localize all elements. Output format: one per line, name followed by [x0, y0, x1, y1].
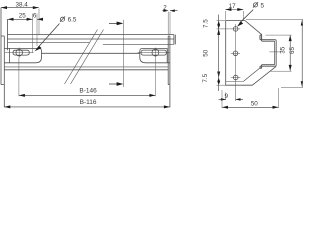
rail top flange [260, 40, 276, 42]
dimension 7.5 top left [203, 15, 231, 35]
rail second line [8, 38, 174, 40]
plate bottom fold line [226, 81, 244, 83]
section view arrow upper [109, 22, 123, 26]
svg-text:6: 6 [33, 12, 37, 19]
label leader Ø6.5 [35, 16, 77, 51]
svg-text:65: 65 [289, 47, 296, 55]
rail web [275, 41, 277, 65]
rail mid mark [270, 51, 282, 53]
dimension 65 [246, 20, 303, 88]
dimension 9 [219, 93, 244, 101]
svg-text:50: 50 [202, 49, 209, 57]
left end plate [1, 8, 4, 108]
svg-text:35: 35 [280, 46, 287, 54]
dimension 6 [33, 12, 43, 46]
plate outline [226, 21, 276, 86]
RIGHT VIEW [226, 21, 281, 101]
hole middle [233, 51, 238, 56]
svg-text:7.5: 7.5 [203, 19, 210, 28]
svg-text:7.5: 7.5 [202, 73, 209, 82]
right slot centerlines [138, 48, 170, 58]
rail third line right segment [103, 43, 174, 45]
dimension 17 [225, 3, 243, 20]
bar bottom line [4, 69, 168, 71]
left slot circle [16, 49, 23, 56]
break line B [71, 30, 104, 85]
section view arrow lower [109, 82, 123, 86]
dimension 2 [162, 4, 177, 35]
svg-text:B-116: B-116 [80, 99, 97, 106]
section cut line [123, 20, 125, 87]
left slot centerlines [5, 48, 34, 58]
right slot circle [152, 49, 159, 56]
dimension 25 [8, 12, 33, 53]
dimension 7.5 bottom left [202, 72, 226, 92]
right end plate [168, 36, 170, 107]
rail top lip [260, 35, 262, 41]
hole bottom [233, 75, 238, 80]
plate corner fold line [243, 68, 260, 81]
bar top line [42, 52, 140, 54]
svg-text:25: 25 [19, 12, 27, 19]
dimension B-116 [4, 99, 170, 109]
dimension B-146 [19, 58, 156, 97]
rail top line [8, 34, 174, 36]
svg-text:6.5: 6.5 [68, 17, 77, 24]
svg-text:50: 50 [251, 101, 259, 108]
rail bottom flange [260, 64, 276, 66]
right bracket [140, 48, 170, 62]
break line A [65, 30, 98, 85]
rail third line left segment [8, 42, 90, 44]
dimension 50 bottom [222, 88, 279, 109]
label leader Ø5 [237, 2, 264, 27]
dimension 50 left [202, 29, 220, 78]
rail bottom lip [260, 65, 262, 69]
bar inner bottom line [4, 66, 168, 68]
svg-text:9: 9 [224, 93, 228, 100]
svg-text:5: 5 [261, 2, 265, 9]
rail left end vertical [7, 19, 9, 50]
dimension 35 [266, 35, 292, 71]
right slot [141, 50, 166, 55]
left slot [13, 50, 29, 55]
svg-text:B-146: B-146 [79, 87, 97, 94]
left bracket [4, 48, 41, 62]
hole top [233, 27, 238, 32]
rail right end verticals [174, 35, 175, 45]
dimension 38.4 [1, 1, 39, 34]
holes centerline [231, 24, 240, 101]
